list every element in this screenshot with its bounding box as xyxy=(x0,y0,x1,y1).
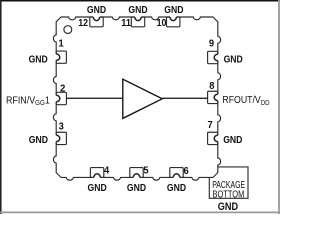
svg-text:9: 9 xyxy=(209,37,214,49)
svg-text:6: 6 xyxy=(184,165,189,177)
svg-text:2: 2 xyxy=(60,83,65,95)
pin 1 castellation notch xyxy=(55,54,60,60)
pin 7 castellation notch xyxy=(214,135,219,141)
PACKAGE BOTTOM box text xyxy=(212,179,245,201)
pin 5 pad xyxy=(130,168,143,178)
svg-text:GND: GND xyxy=(223,134,243,146)
pin 8 pad xyxy=(208,91,218,103)
pin 1 pad xyxy=(56,51,66,63)
svg-text:1: 1 xyxy=(59,38,64,50)
svg-text:7: 7 xyxy=(208,119,213,131)
svg-text:GND: GND xyxy=(167,182,187,194)
pin 9 pad xyxy=(208,51,218,63)
pin 12 pad xyxy=(90,17,103,27)
pin 6 castellation notch xyxy=(173,174,179,179)
pin 9 castellation notch xyxy=(214,54,219,60)
pin 7 pad xyxy=(208,132,218,144)
svg-text:4: 4 xyxy=(104,164,109,176)
pin 2 castellation notch xyxy=(55,95,60,101)
svg-text:GND: GND xyxy=(224,53,244,65)
svg-text:GND: GND xyxy=(164,4,184,16)
pin 10 castellation notch xyxy=(170,16,176,21)
pin 11 pad xyxy=(131,17,144,27)
package outline xyxy=(53,17,220,180)
wire from amplifier output to pin 8 RFOUT xyxy=(162,97,207,99)
svg-text:12: 12 xyxy=(78,17,88,29)
pin 12 castellation notch xyxy=(93,16,99,21)
svg-text:11: 11 xyxy=(121,17,131,29)
pin 5 castellation notch xyxy=(133,174,139,179)
svg-text:GND: GND xyxy=(29,134,49,146)
package bottom box xyxy=(209,167,248,198)
svg-text:8: 8 xyxy=(209,80,214,92)
svg-text:GND: GND xyxy=(87,4,107,16)
amplifier A1 triangle xyxy=(123,79,162,118)
svg-text:3: 3 xyxy=(59,121,64,133)
pin 4 castellation notch xyxy=(94,174,100,179)
pin 1 indicator circle xyxy=(64,26,72,34)
pin 2 pad xyxy=(56,92,66,104)
pin 11 castellation notch xyxy=(135,16,141,21)
svg-text:GND: GND xyxy=(128,4,148,16)
svg-text:GND: GND xyxy=(29,53,49,65)
svg-text:BOTTOM: BOTTOM xyxy=(213,189,245,201)
wire from pin 2 RFIN to amplifier input xyxy=(66,97,122,99)
svg-text:GND: GND xyxy=(127,182,147,194)
pin 10 pad xyxy=(167,17,180,27)
pin 6 pad xyxy=(170,168,183,178)
svg-text:GND: GND xyxy=(218,201,238,213)
svg-text:10: 10 xyxy=(157,17,167,29)
pin 3 castellation notch xyxy=(55,135,60,141)
svg-text:5: 5 xyxy=(143,165,148,177)
pin 3 pad xyxy=(56,132,66,144)
svg-text:GND: GND xyxy=(88,182,108,194)
pin 4 pad xyxy=(90,168,103,178)
pin 8 castellation notch xyxy=(214,94,219,100)
